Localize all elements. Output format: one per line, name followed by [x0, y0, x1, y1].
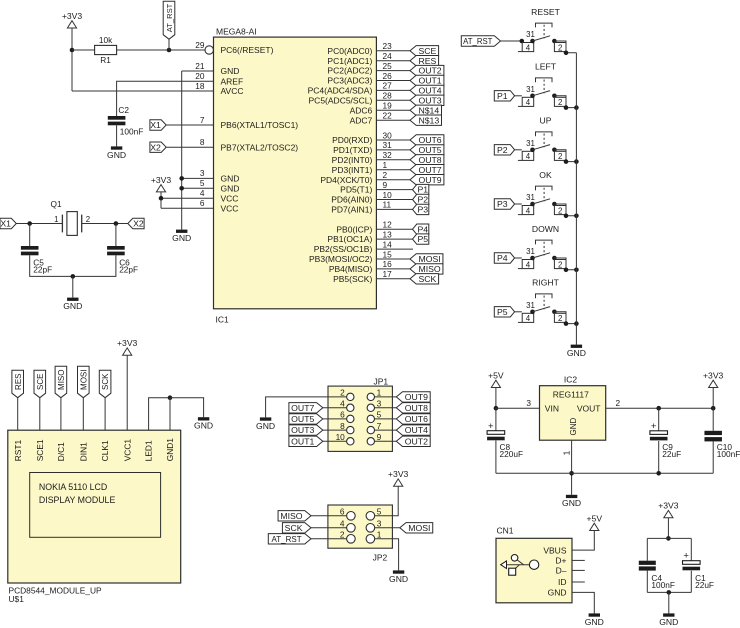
wire AVCC	[72, 90, 214, 92]
svg-text:10k: 10k	[99, 35, 113, 45]
svg-text:26: 26	[383, 71, 393, 81]
wire JP2 pin3 to MOSI	[375, 527, 400, 529]
svg-text:31: 31	[526, 301, 535, 310]
flag RES	[410, 56, 439, 66]
wire JP1 OUT2	[375, 440, 397, 442]
svg-text:5: 5	[377, 506, 382, 516]
svg-text:MISO: MISO	[280, 511, 302, 521]
flag OUT2	[396, 436, 430, 446]
svg-text:Q1: Q1	[51, 199, 62, 209]
svg-text:5: 5	[200, 178, 205, 188]
svg-text:4: 4	[526, 314, 531, 323]
svg-text:PB6(XTAL1/TOSC1): PB6(XTAL1/TOSC1)	[221, 120, 299, 130]
flag P4 (button DOWN)	[494, 253, 514, 263]
wire USB GND	[572, 592, 594, 613]
svg-text:RES: RES	[14, 373, 23, 389]
svg-text:29: 29	[195, 40, 205, 50]
pin 8 JP1 left	[340, 421, 354, 434]
svg-text:MOSI: MOSI	[418, 254, 440, 264]
wire C1 bottom	[690, 571, 692, 593]
svg-text:+5V: +5V	[488, 370, 504, 380]
svg-text:X2: X2	[133, 219, 144, 229]
svg-text:P5: P5	[497, 307, 508, 317]
wire C9 bottom	[658, 441, 660, 473]
svg-text:1: 1	[561, 450, 571, 455]
svg-text:PC5(ADC5/SCL): PC5(ADC5/SCL)	[309, 95, 373, 105]
flag N$14	[410, 105, 442, 115]
wire C4 bottom	[646, 571, 648, 593]
flag P2	[413, 194, 429, 204]
svg-text:+: +	[683, 551, 689, 562]
flag X1 (crystal left)	[0, 218, 16, 228]
node junction X2/C6	[114, 221, 119, 226]
svg-text:OUT8: OUT8	[405, 403, 428, 413]
svg-text:C2: C2	[118, 105, 129, 115]
svg-text:11: 11	[383, 200, 392, 210]
svg-text:100nF: 100nF	[120, 127, 144, 137]
svg-text:P4: P4	[497, 253, 508, 263]
svg-text:OUT3: OUT3	[418, 95, 441, 105]
svg-text:PC1(ADC1): PC1(ADC1)	[327, 56, 372, 66]
USB icon	[501, 555, 539, 576]
pin D+	[555, 556, 566, 566]
svg-text:MOSI: MOSI	[79, 370, 88, 390]
wire +5V down	[495, 388, 497, 409]
node junction AT_RST/reset	[167, 48, 172, 53]
node junction bus UP	[574, 159, 579, 164]
svg-text:P1: P1	[497, 91, 508, 101]
svg-text:OUT8: OUT8	[418, 155, 441, 165]
svg-text:ID: ID	[558, 577, 567, 587]
wire filter bottom rail	[647, 591, 691, 593]
pin 15 PB3(MOSI/OC2)	[309, 249, 410, 264]
svg-text:PD5(T1): PD5(T1)	[340, 185, 372, 195]
svg-text:PB3(MOSI/OC2): PB3(MOSI/OC2)	[309, 254, 372, 264]
svg-text:P4: P4	[417, 224, 428, 234]
svg-text:GND: GND	[63, 301, 82, 311]
wire down to ground	[72, 276, 74, 297]
flag P1 (button LEFT)	[494, 91, 514, 101]
flag MISO	[278, 511, 311, 521]
svg-text:UP: UP	[540, 116, 552, 126]
svg-text:OUT4: OUT4	[405, 425, 428, 435]
svg-text:PB2(SS/OC1B): PB2(SS/OC1B)	[314, 244, 373, 254]
svg-text:2: 2	[340, 529, 345, 539]
svg-text:9: 9	[383, 180, 388, 190]
wire VBUS to +5V	[572, 531, 594, 551]
pin 17 PB5(SCK)	[333, 269, 410, 284]
node junction GND pin5	[179, 186, 184, 191]
svg-text:OUT5: OUT5	[291, 414, 314, 424]
wire SCK to LCD pin	[104, 398, 106, 431]
svg-text:4: 4	[526, 152, 531, 161]
flag P5	[413, 234, 429, 244]
flag P2 (button UP)	[494, 145, 514, 155]
wire C9 top	[658, 408, 660, 431]
svg-text:3: 3	[377, 399, 382, 409]
flag SCK	[410, 274, 439, 284]
pin 13 PB1(OC1A)	[327, 229, 412, 244]
svg-text:D–: D–	[556, 566, 567, 576]
svg-text:OUT5: OUT5	[418, 145, 441, 155]
svg-text:AREF: AREF	[221, 76, 244, 86]
svg-text:22uF: 22uF	[662, 449, 681, 459]
svg-text:19: 19	[383, 101, 393, 111]
svg-text:PD3(INT1): PD3(INT1)	[332, 165, 373, 175]
wire P4 to switch	[515, 257, 522, 259]
capacitor C5 22pF	[21, 246, 52, 274]
svg-text:OUT2: OUT2	[418, 66, 441, 76]
svg-text:31: 31	[383, 140, 393, 150]
svg-text:OUT4: OUT4	[418, 86, 441, 96]
wire switch RIGHT to bus	[554, 312, 576, 326]
svg-text:GND: GND	[567, 348, 586, 358]
svg-text:+3V3: +3V3	[62, 11, 83, 21]
ground LCD	[194, 417, 213, 430]
svg-text:PC0(ADC0): PC0(ADC0)	[327, 46, 372, 56]
pin 26 PC3(ADC3)	[327, 71, 410, 86]
svg-text:+3V3: +3V3	[658, 501, 679, 511]
svg-text:PB4(MISO): PB4(MISO)	[329, 264, 373, 274]
power +3V3 (regulator out)	[703, 370, 724, 387]
svg-text:OUT1: OUT1	[291, 436, 314, 446]
capacitor C8 220uF	[487, 421, 523, 459]
node junction GND pin3	[179, 176, 184, 181]
svg-text:PD2(INT0): PD2(INT0)	[332, 155, 373, 165]
svg-text:4: 4	[340, 518, 345, 528]
pin 9 JP1 right	[367, 432, 382, 445]
svg-text:2: 2	[340, 388, 345, 398]
svg-text:MEGA8-AI: MEGA8-AI	[216, 26, 257, 36]
svg-text:12: 12	[383, 220, 393, 230]
svg-text:AT_RST: AT_RST	[272, 535, 302, 544]
svg-text:+: +	[651, 421, 657, 432]
capacitor C4 100nF	[639, 561, 675, 590]
svg-text:DIN1: DIN1	[78, 442, 88, 461]
svg-text:SCK: SCK	[418, 274, 436, 284]
flag SCK	[282, 523, 311, 533]
wire GND1 up	[169, 398, 171, 431]
pin D-	[556, 566, 567, 576]
svg-text:OUT9: OUT9	[405, 392, 428, 402]
flag OUT8	[410, 155, 444, 165]
ground button bus	[567, 345, 586, 358]
regulator IC2 REG1117 body	[540, 375, 606, 441]
power +3V3 (JP2)	[388, 469, 409, 486]
svg-text:7: 7	[377, 421, 382, 431]
svg-text:2: 2	[383, 170, 388, 180]
flag OUT7	[410, 165, 444, 175]
wire JP1 OUT8	[375, 407, 397, 409]
wire JP2 SCK	[311, 527, 346, 529]
svg-text:30: 30	[383, 130, 393, 140]
svg-text:22pF: 22pF	[33, 264, 52, 274]
svg-text:16: 16	[383, 259, 393, 269]
flag OUT4	[410, 85, 444, 95]
svg-text:5: 5	[377, 410, 382, 420]
svg-text:PD6(AIN0): PD6(AIN0)	[331, 195, 372, 205]
node junction filter ground	[667, 590, 672, 595]
wire JP1 OUT4	[375, 429, 397, 431]
pin 3 GND	[200, 168, 240, 183]
node junction IC2 GND/bus	[569, 471, 574, 476]
svg-text:10: 10	[336, 432, 346, 442]
wire C10 top	[712, 408, 714, 431]
svg-text:GND: GND	[659, 617, 678, 627]
wire JP2 MISO	[311, 515, 346, 517]
pin 4 VCC	[200, 188, 239, 203]
wire JP1 OUT7	[323, 407, 347, 409]
svg-text:27: 27	[383, 81, 393, 91]
svg-text:6: 6	[340, 410, 345, 420]
label PCD8544_MODULE_UP US1	[9, 585, 103, 604]
wire C8 top	[495, 408, 497, 431]
svg-text:GND: GND	[585, 617, 604, 627]
svg-text:4: 4	[526, 98, 531, 107]
pin 2 PD4(XCK/T0)	[320, 170, 410, 185]
svg-text:P2: P2	[417, 195, 428, 205]
svg-text:U$1: U$1	[9, 594, 25, 604]
connector CN1 body	[496, 526, 572, 603]
switch S3 UP	[518, 116, 566, 162]
pin 30 PD0(RXD)	[332, 130, 410, 145]
wire RES to LCD pin	[17, 398, 19, 431]
svg-text:LED1: LED1	[144, 440, 154, 461]
svg-text:GND: GND	[389, 574, 408, 584]
svg-text:PB1(OC1A): PB1(OC1A)	[327, 234, 372, 244]
resistor R1 10k	[95, 35, 117, 65]
node junction filter top	[666, 536, 671, 541]
svg-text:+3V3: +3V3	[388, 469, 409, 479]
power +5V (regulator)	[488, 370, 504, 387]
wire C6 to ground junction	[73, 255, 116, 276]
svg-text:JP2: JP2	[373, 552, 388, 562]
connector JP2 body	[328, 505, 393, 562]
svg-text:LEFT: LEFT	[535, 62, 557, 72]
wire X1 to pin 7	[166, 124, 213, 126]
flag OUT6	[396, 414, 430, 424]
node junction bus RIGHT	[574, 321, 579, 326]
svg-text:PC3(ADC3): PC3(ADC3)	[327, 76, 372, 86]
flag P5 (button RIGHT)	[494, 307, 514, 317]
wire to LCD ground	[170, 398, 204, 418]
pin 23 PC0(ADC0)	[327, 41, 410, 56]
svg-text:15: 15	[383, 249, 393, 259]
svg-text:ADC7: ADC7	[350, 115, 373, 125]
svg-text:100nF: 100nF	[717, 449, 740, 459]
svg-text:18: 18	[195, 81, 205, 91]
svg-text:RST1: RST1	[13, 440, 23, 462]
capacitor C6 22pF	[107, 246, 138, 274]
pin 4 JP1 left	[340, 399, 354, 412]
svg-text:X1: X1	[0, 219, 11, 229]
crystal Q1	[51, 199, 91, 235]
svg-text:32: 32	[383, 150, 393, 160]
flag OUT3	[289, 425, 323, 435]
wire +3V3 rail down to AVCC	[71, 28, 73, 91]
svg-text:3: 3	[526, 398, 531, 408]
svg-text:SCK: SCK	[101, 373, 110, 390]
wire C5 to ground junction	[30, 255, 73, 276]
power +3V3 (VCC pins)	[151, 175, 172, 192]
wire AT_RST flag stem	[168, 39, 170, 50]
wire P1 to switch	[515, 95, 522, 97]
svg-text:N$14: N$14	[418, 105, 439, 115]
flag AT_RST	[268, 534, 311, 544]
display module US1 body	[8, 430, 181, 583]
svg-text:CN1: CN1	[497, 526, 514, 536]
svg-text:RIGHT: RIGHT	[532, 278, 559, 288]
svg-text:+3V3: +3V3	[703, 370, 724, 380]
power +3V3 (LCD)	[117, 338, 138, 355]
svg-text:3: 3	[200, 168, 205, 178]
node junction +5V/C8	[494, 406, 499, 411]
svg-text:PC6(/RESET): PC6(/RESET)	[221, 45, 274, 55]
pin 2 JP2 left	[340, 529, 355, 543]
svg-text:OUT6: OUT6	[405, 414, 428, 424]
svg-text:31: 31	[526, 247, 535, 256]
svg-text:AVCC: AVCC	[221, 86, 244, 96]
svg-text:22: 22	[383, 111, 393, 121]
svg-text:IC2: IC2	[564, 375, 578, 385]
ground IC2	[562, 495, 581, 508]
svg-text:14: 14	[383, 239, 393, 249]
svg-text:P3: P3	[417, 205, 428, 215]
pin 18 AVCC	[195, 81, 243, 96]
svg-text:OUT7: OUT7	[418, 165, 441, 175]
svg-text:8: 8	[340, 421, 345, 431]
svg-text:DISPLAY MODULE: DISPLAY MODULE	[39, 495, 116, 505]
pin 1 JP1 right	[367, 388, 382, 401]
svg-text:10: 10	[383, 190, 393, 200]
flag MOSI (LCD)	[78, 366, 90, 397]
svg-text:VBUS: VBUS	[543, 545, 566, 555]
flag X1 (near IC)	[150, 120, 166, 130]
flag OUT3	[410, 95, 444, 105]
node junction VCC	[159, 196, 164, 201]
svg-text:R1: R1	[100, 55, 111, 65]
wire X1 to crystal	[16, 223, 62, 225]
capacitor C1 22uF	[683, 551, 715, 590]
flag X2 (crystal right)	[128, 218, 144, 228]
svg-text:RESET: RESET	[531, 7, 560, 17]
svg-text:OUT7: OUT7	[291, 403, 314, 413]
svg-text:MISO: MISO	[57, 370, 66, 390]
svg-text:3: 3	[377, 518, 382, 528]
pin 10 JP1 left	[336, 432, 354, 445]
svg-text:AT_RST: AT_RST	[463, 37, 493, 46]
flag P1	[413, 184, 429, 194]
node junction crystal ground	[71, 274, 76, 279]
wire R1 to pin 29	[117, 49, 205, 51]
svg-text:31: 31	[526, 193, 535, 202]
flag P3	[413, 204, 429, 214]
wire X1 node down to C5	[29, 224, 31, 247]
svg-text:GND: GND	[548, 588, 567, 598]
node junction X1/C5	[27, 221, 32, 226]
svg-text:24: 24	[383, 51, 393, 61]
wire JP1 OUT3	[323, 429, 347, 431]
wire filter top rail	[647, 537, 691, 539]
flag SCE	[410, 46, 439, 56]
svg-text:MISO: MISO	[418, 264, 440, 274]
svg-text:JP1: JP1	[373, 376, 388, 386]
svg-text:D+: D+	[555, 556, 566, 566]
svg-text:REG1117: REG1117	[553, 390, 589, 400]
svg-text:OUT1: OUT1	[418, 76, 441, 86]
svg-text:17: 17	[383, 269, 393, 279]
svg-text:6: 6	[340, 506, 345, 516]
LCD display window	[30, 473, 161, 538]
svg-text:23: 23	[383, 41, 393, 51]
ground USB	[585, 613, 604, 627]
svg-text:VIN: VIN	[545, 404, 559, 414]
svg-text:CLK1: CLK1	[100, 440, 110, 461]
flag X2 (near IC)	[150, 142, 166, 152]
power +5V (USB)	[587, 513, 603, 530]
svg-text:+5V: +5V	[587, 513, 603, 523]
wire switch LEFT to bus	[554, 96, 576, 110]
svg-text:P3: P3	[497, 199, 508, 209]
wire JP1 OUT6	[375, 418, 397, 420]
wire MOSI to LCD pin	[82, 398, 84, 431]
pin VBUS	[543, 545, 566, 555]
pin 32 PD2(INT0)	[332, 150, 410, 165]
svg-text:9: 9	[377, 432, 382, 442]
svg-text:OUT3: OUT3	[291, 425, 314, 435]
node junction +3V3/R1	[70, 48, 75, 53]
svg-text:+3V3: +3V3	[117, 338, 138, 348]
node junction bus OK	[574, 214, 579, 219]
wire MISO to LCD pin	[60, 398, 62, 431]
svg-text:VCC: VCC	[221, 203, 239, 213]
svg-text:MOSI: MOSI	[408, 523, 430, 533]
flag OUT7	[289, 403, 323, 413]
svg-text:25: 25	[383, 61, 393, 71]
svg-text:GND: GND	[221, 174, 240, 184]
svg-text:PB5(SCK): PB5(SCK)	[333, 274, 372, 284]
wire GND rail (pins 21/3/5)	[182, 71, 214, 230]
svg-text:2: 2	[558, 98, 562, 107]
pin 24 PC1(ADC1)	[327, 51, 410, 66]
wire JP2 AT_RST	[311, 538, 346, 540]
ground below C2	[107, 146, 126, 159]
flag RES (LCD)	[12, 370, 24, 397]
flag MOSI (JP2)	[400, 523, 433, 533]
svg-text:PB0(ICP): PB0(ICP)	[336, 224, 372, 234]
LCD pin names	[13, 438, 175, 462]
ground JP1	[256, 417, 275, 430]
pin 5 JP1 right	[367, 410, 382, 423]
wire VOUT rail	[606, 398, 714, 408]
svg-text:AT_RST: AT_RST	[165, 3, 174, 32]
node junction C9 ground	[656, 471, 661, 476]
svg-text:+3V3: +3V3	[151, 175, 172, 185]
svg-text:OUT9: OUT9	[418, 175, 441, 185]
pin 1 JP2 right	[366, 529, 382, 543]
pin ID	[558, 577, 567, 587]
flag AT_RST (button RESET)	[461, 36, 500, 46]
svg-text:PD0(RXD): PD0(RXD)	[332, 135, 372, 145]
svg-text:2: 2	[86, 215, 90, 224]
svg-text:4: 4	[526, 260, 531, 269]
pin 16 PB4(MISO)	[329, 259, 410, 274]
wire C8 bottom	[495, 441, 497, 474]
wire to filter ground	[668, 592, 670, 613]
pin 14 PB2(SS/OC1B)	[314, 239, 413, 254]
wire switch UP to bus	[554, 150, 576, 164]
svg-text:4: 4	[526, 43, 531, 52]
